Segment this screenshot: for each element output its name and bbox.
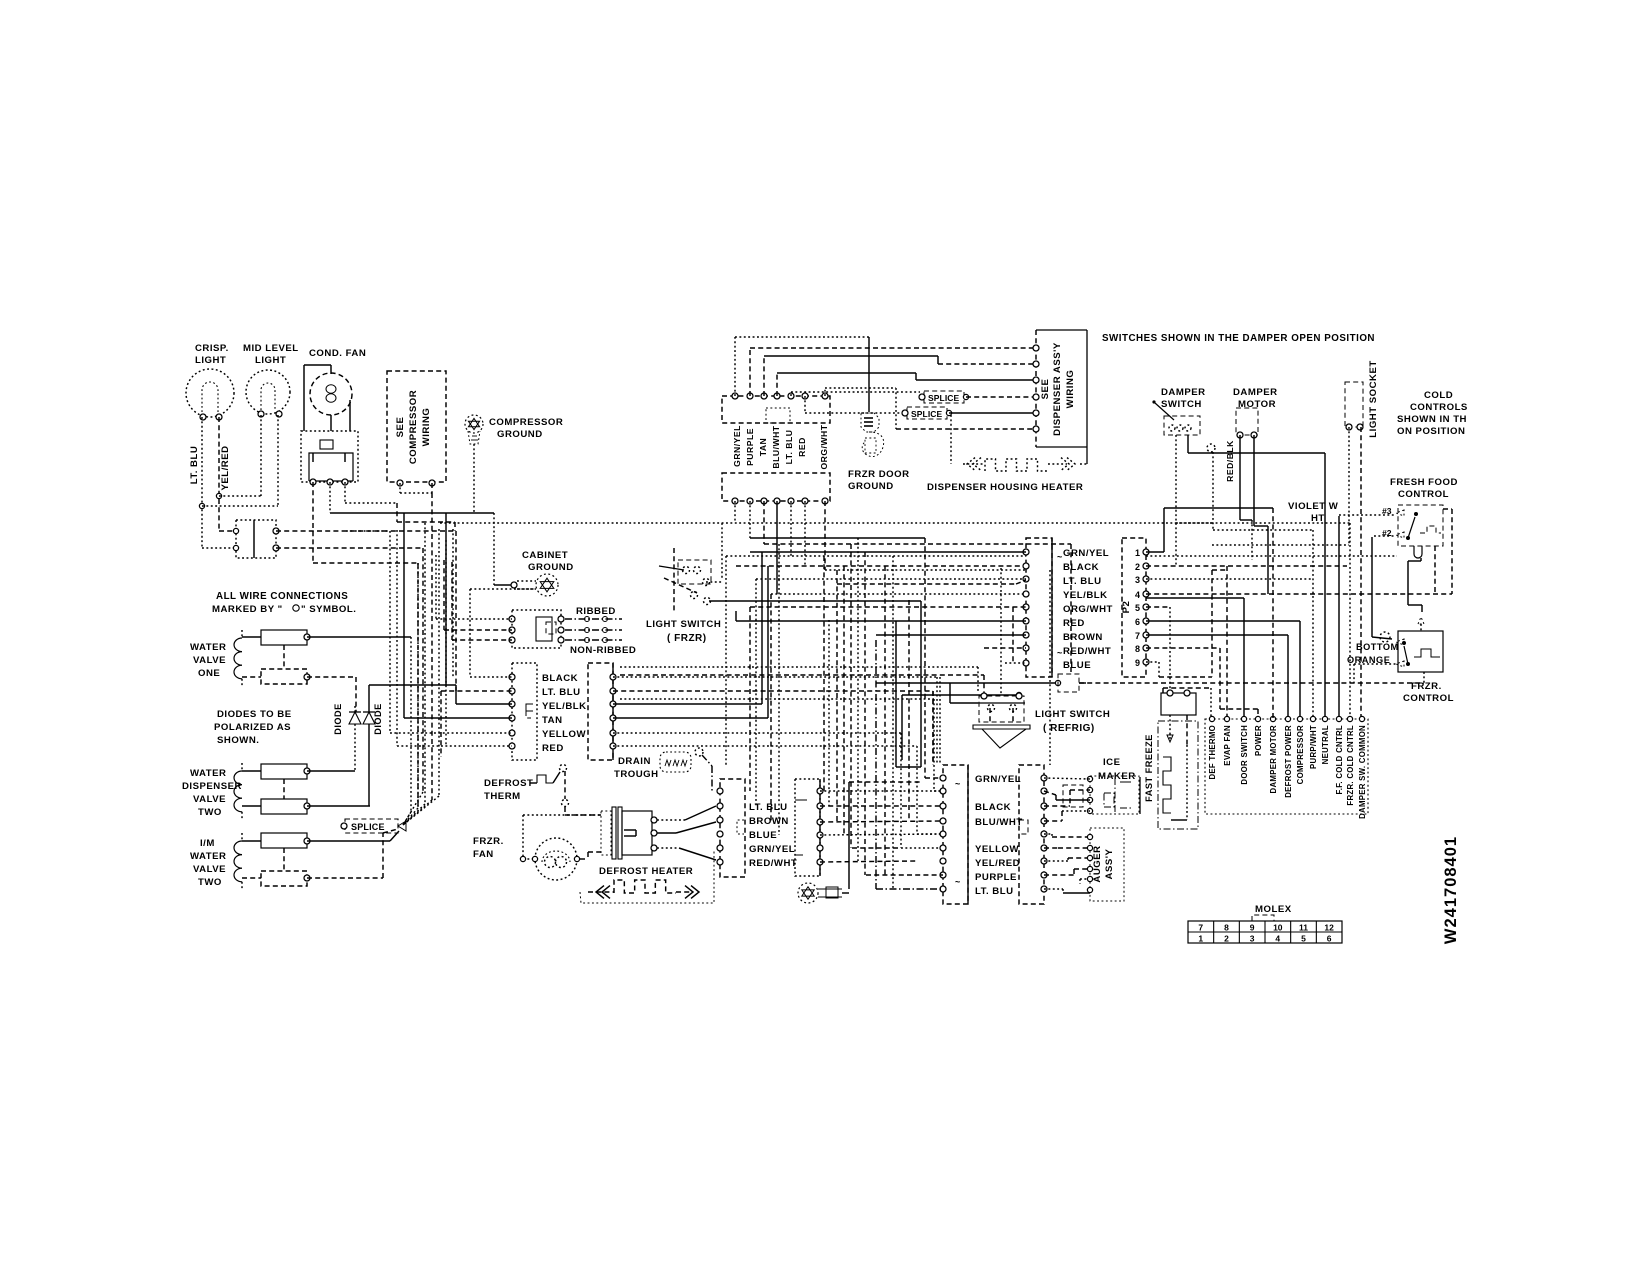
wire switch frzr out2 bbox=[735, 611, 737, 621]
wire mesh v902 bbox=[901, 695, 903, 760]
wire purp wht drop bbox=[1312, 530, 1314, 719]
wire row tan right bbox=[613, 717, 768, 719]
wire blue row bbox=[1005, 662, 1026, 664]
svg-text:RED/BLK: RED/BLK bbox=[1225, 440, 1235, 482]
wire bus y556 bbox=[726, 555, 1026, 557]
svg-text:LIGHT: LIGHT bbox=[255, 355, 286, 366]
wire evap fan drop bbox=[1226, 566, 1228, 719]
wire def thermo link bbox=[1163, 687, 1211, 689]
board terminal EVAP FAN bbox=[1224, 716, 1229, 721]
wire mesh h675 bbox=[620, 674, 984, 676]
wire switch frzr out1 bbox=[709, 600, 921, 602]
wire row ltblu left bbox=[441, 690, 512, 692]
wire valve2 top out bbox=[307, 770, 355, 772]
svg-text:RED: RED bbox=[542, 743, 564, 754]
defrost connector A bbox=[720, 779, 745, 877]
svg-text:RED: RED bbox=[797, 437, 807, 457]
icemaker connector D bbox=[1019, 765, 1044, 904]
splice converge diagonals bbox=[403, 812, 411, 825]
svg-text:( FRZR): ( FRZR) bbox=[667, 633, 707, 644]
svg-text:ORG/WHT: ORG/WHT bbox=[1063, 604, 1113, 615]
board terminal PURP/WHT bbox=[1310, 716, 1315, 721]
wire mid light left lead bbox=[260, 415, 262, 496]
svg-text:DRAIN: DRAIN bbox=[618, 756, 651, 767]
wire row black right bbox=[613, 676, 937, 678]
svg-text:DAMPER: DAMPER bbox=[1233, 387, 1278, 398]
svg-text:DAMPER MOTOR: DAMPER MOTOR bbox=[1269, 725, 1278, 793]
wire bus y513 bbox=[330, 512, 494, 514]
board terminal POWER bbox=[1255, 716, 1260, 721]
svg-text:5: 5 bbox=[1301, 934, 1306, 944]
svg-text:BLACK: BLACK bbox=[975, 802, 1011, 813]
svg-text:1: 1 bbox=[1198, 934, 1203, 944]
wire row red right bbox=[613, 745, 917, 747]
svg-text:MOLEX: MOLEX bbox=[1255, 904, 1292, 915]
ice maker box bbox=[1090, 776, 1139, 814]
wire ltblu row bbox=[756, 578, 1026, 580]
svg-text:BLUE: BLUE bbox=[749, 830, 777, 841]
svg-text:YEL/RED: YEL/RED bbox=[220, 445, 231, 490]
water valve one coil bbox=[241, 630, 243, 638]
wire comp box t1 drop bbox=[399, 483, 401, 493]
wire diode2 top run bbox=[369, 684, 456, 686]
see compressor wiring box bbox=[387, 371, 446, 482]
wire bus y566 bbox=[736, 565, 1026, 567]
svg-text:6: 6 bbox=[1327, 934, 1332, 944]
bundle vertical e bbox=[417, 563, 419, 808]
wire mesh h667 bbox=[620, 666, 978, 668]
wire grnyel row solid bbox=[750, 551, 1026, 553]
compressor relay box bbox=[301, 431, 358, 482]
wire p2 route bbox=[1146, 565, 1347, 567]
svg-text:PURPLE: PURPLE bbox=[745, 428, 755, 466]
svg-text:YEL/BLK: YEL/BLK bbox=[1063, 590, 1108, 601]
svg-text:~: ~ bbox=[1057, 648, 1063, 658]
wire p6 route bbox=[1146, 620, 1300, 622]
wire row yellow right bbox=[613, 732, 901, 734]
wire bus y503-522 bbox=[345, 502, 397, 504]
svg-text:VALVE: VALVE bbox=[193, 864, 226, 875]
im water valve coil bbox=[241, 833, 243, 841]
svg-text:MARKED BY ": MARKED BY " bbox=[212, 604, 283, 615]
wire lamp connector out 2 bbox=[276, 547, 423, 549]
svg-text:WATER: WATER bbox=[190, 642, 226, 653]
svg-text:YELLOW: YELLOW bbox=[975, 844, 1019, 855]
power cord plug bbox=[512, 610, 561, 648]
svg-text:~: ~ bbox=[1057, 552, 1063, 562]
fast freeze outline bbox=[1158, 721, 1198, 829]
wire disp 7 up bbox=[824, 388, 826, 396]
wire mesh h683 bbox=[876, 682, 1058, 684]
wire bus y544 bbox=[764, 543, 1071, 545]
board terminal COMPRESSOR bbox=[1297, 716, 1302, 721]
svg-text:POLARIZED AS: POLARIZED AS bbox=[214, 722, 291, 733]
water dispenser valve two body bbox=[261, 764, 307, 779]
svg-text:THERM: THERM bbox=[484, 791, 521, 802]
svg-text:1: 1 bbox=[1135, 548, 1140, 558]
svg-text:WATER: WATER bbox=[190, 851, 226, 862]
wire p1 route bbox=[1146, 551, 1164, 553]
fast freeze relay box bbox=[1161, 693, 1196, 715]
wire disp lower drops bbox=[734, 501, 736, 523]
svg-text:COMPRESSOR: COMPRESSOR bbox=[408, 390, 419, 464]
svg-text:LIGHT SWITCH: LIGHT SWITCH bbox=[1035, 709, 1110, 720]
wire splice2 drop bbox=[950, 415, 952, 464]
svg-text:DEFROST POWER: DEFROST POWER bbox=[1284, 725, 1293, 798]
svg-text:GRN/YEL: GRN/YEL bbox=[732, 425, 742, 467]
frzr door ground lug bbox=[861, 413, 879, 432]
wire frzr cold drop bbox=[1349, 523, 1351, 719]
svg-text:7: 7 bbox=[1198, 923, 1203, 933]
wire light socket t1 violet bbox=[1348, 427, 1350, 545]
svg-text:DEFROST HEATER: DEFROST HEATER bbox=[599, 866, 693, 877]
svg-text:BROWN: BROWN bbox=[749, 816, 789, 827]
svg-text:8: 8 bbox=[1135, 644, 1140, 654]
svg-text:RED/WHT: RED/WHT bbox=[1063, 646, 1111, 657]
svg-text:DISPENSER: DISPENSER bbox=[182, 781, 242, 792]
svg-text:BOTTOM: BOTTOM bbox=[1356, 642, 1399, 652]
wire p9 route bbox=[1146, 661, 1159, 663]
bundle vertical g bbox=[431, 493, 433, 800]
wire damper common bbox=[1176, 522, 1350, 524]
cord ribbed wires bbox=[565, 618, 622, 620]
light socket box bbox=[1345, 382, 1363, 427]
wire p3 route bbox=[1146, 578, 1313, 580]
wire p4 solid route bbox=[1146, 597, 1244, 599]
wire relay t3 drop bbox=[344, 482, 346, 503]
svg-text:5: 5 bbox=[1135, 603, 1140, 613]
wire heater to box bbox=[1080, 463, 1087, 465]
svg-text:DIODE: DIODE bbox=[373, 703, 383, 735]
frzr control box bbox=[1398, 631, 1443, 672]
svg-text:PURPLE: PURPLE bbox=[975, 872, 1017, 883]
wire disp lower drop 5 bbox=[790, 501, 792, 556]
see dispenser assy wiring box bbox=[1035, 330, 1037, 447]
lamp connector block bbox=[236, 520, 276, 558]
wire brown row bbox=[876, 634, 1026, 636]
svg-text:EVAP FAN: EVAP FAN bbox=[1223, 725, 1232, 766]
molex bracket bbox=[1252, 915, 1274, 921]
wire comp box t2 drop bbox=[431, 483, 433, 493]
svg-text:VALVE: VALVE bbox=[193, 794, 226, 805]
bundle vertical d bbox=[410, 637, 412, 812]
wire valve3 top out bbox=[307, 840, 390, 842]
wire lamp connector out 1 bbox=[276, 530, 456, 532]
splice sp1 bbox=[924, 391, 964, 403]
board terminal FRZR. COLD CNTRL bbox=[1347, 716, 1352, 721]
svg-text:2: 2 bbox=[1135, 562, 1140, 572]
svg-text:DEF THERMO: DEF THERMO bbox=[1208, 725, 1217, 780]
svg-text:CRISP.: CRISP. bbox=[195, 343, 229, 354]
svg-text:BROWN: BROWN bbox=[1063, 632, 1103, 643]
P2 connector bbox=[1122, 538, 1146, 677]
light switch refrig symbol bbox=[979, 696, 1024, 722]
svg-text:DISPENSER ASS'Y: DISPENSER ASS'Y bbox=[1052, 342, 1063, 436]
wire disp 3 up bbox=[763, 356, 765, 396]
wire row red left bbox=[397, 745, 512, 747]
wire relay t1 drop bbox=[312, 482, 314, 563]
svg-text:ORG/WHT: ORG/WHT bbox=[819, 424, 829, 469]
svg-text:ASS'Y: ASS'Y bbox=[1104, 848, 1115, 879]
svg-text:SWITCHES SHOWN IN THE DAMP: SWITCHES SHOWN IN THE DAMPER OPEN POSITI… bbox=[1102, 333, 1375, 344]
ff cold cntrl drop bbox=[1338, 516, 1340, 719]
wire crisp light right lead bbox=[218, 417, 220, 531]
svg-text:SPLICE: SPLICE bbox=[911, 409, 943, 419]
svg-text:SWITCH: SWITCH bbox=[1161, 399, 1202, 410]
svg-text:( REFRIG): ( REFRIG) bbox=[1043, 723, 1095, 734]
svg-text:ON POSITION: ON POSITION bbox=[1397, 426, 1465, 437]
evap ground lug bbox=[798, 883, 818, 903]
wire frzr ctl t1 bbox=[1380, 632, 1390, 642]
wire damper sw t1 bbox=[1175, 435, 1177, 566]
wire mesh h699 bbox=[620, 698, 934, 700]
wire p1 dotted bbox=[1146, 555, 1397, 557]
svg-text:RED/WHT: RED/WHT bbox=[749, 858, 797, 869]
wire disp lower drop 7 bbox=[824, 501, 826, 570]
freezer harness connector left bbox=[512, 663, 537, 760]
svg-text:ICE: ICE bbox=[1103, 757, 1121, 768]
wire valve3 bottom out bbox=[307, 877, 383, 879]
wire ff control bottom bbox=[1414, 546, 1422, 558]
wire bus y523 long bbox=[440, 522, 1213, 524]
svg-text:10: 10 bbox=[1273, 923, 1283, 933]
wire frzr ctl bottom bbox=[1423, 672, 1425, 683]
svg-text:7: 7 bbox=[1135, 631, 1140, 641]
svg-text:DAMPER SW. COMMON: DAMPER SW. COMMON bbox=[1358, 725, 1367, 819]
svg-text:LT. BLU: LT. BLU bbox=[975, 886, 1014, 897]
dispenser housing heater bbox=[967, 458, 975, 471]
svg-text:GROUND: GROUND bbox=[528, 562, 574, 573]
wire valve2 bottom out bbox=[307, 805, 370, 807]
bundle vertical c bbox=[403, 513, 405, 718]
wire disp 4 up bbox=[776, 373, 778, 396]
wire disp 5 up splice bbox=[790, 392, 792, 396]
svg-text:RED: RED bbox=[1063, 618, 1085, 629]
damper switch symbol bbox=[1164, 416, 1200, 435]
wire cond fan to relay bbox=[303, 365, 305, 431]
svg-text:LIGHT SOCKET: LIGHT SOCKET bbox=[1368, 360, 1379, 437]
dispenser door connector lower bbox=[722, 473, 830, 501]
wire damper motor mesh bbox=[1251, 520, 1253, 560]
svg-text:F.F. COLD CNTRL: F.F. COLD CNTRL bbox=[1335, 725, 1344, 794]
wire row yelblk right bbox=[613, 703, 762, 705]
svg-text:GROUND: GROUND bbox=[497, 429, 543, 440]
svg-text:4: 4 bbox=[1135, 590, 1140, 600]
splice oval bbox=[345, 819, 398, 833]
wire frzr ctl t2 bbox=[1354, 663, 1396, 665]
wire relay t2 drop bbox=[329, 482, 331, 513]
wire disp lower drop 6 bbox=[804, 501, 806, 566]
svg-text:COND. FAN: COND. FAN bbox=[309, 348, 366, 359]
svg-text:DEFROST: DEFROST bbox=[484, 778, 533, 789]
svg-text:TROUGH: TROUGH bbox=[614, 769, 659, 780]
A arrow marker bbox=[1418, 617, 1424, 624]
svg-text:LIGHT: LIGHT bbox=[195, 355, 226, 366]
cabinet harness connector bbox=[1026, 538, 1052, 677]
svg-text:I/M: I/M bbox=[200, 838, 215, 849]
svg-text:NON-RIBBED: NON-RIBBED bbox=[570, 645, 636, 656]
svg-text:AUGER: AUGER bbox=[1092, 845, 1103, 882]
bundle vertical b bbox=[396, 530, 398, 746]
svg-text:12: 12 bbox=[1324, 923, 1334, 933]
svg-text:TAN: TAN bbox=[542, 715, 563, 726]
svg-text:HT: HT bbox=[1311, 513, 1325, 524]
fast freeze switch bbox=[1169, 715, 1171, 740]
svg-text:NEUTRAL: NEUTRAL bbox=[1321, 725, 1330, 764]
svg-text:GRN/YEL: GRN/YEL bbox=[749, 844, 795, 855]
svg-text:LT. BLU: LT. BLU bbox=[189, 446, 200, 485]
svg-text:" SYMBOL.: " SYMBOL. bbox=[301, 604, 356, 615]
fresh food control box bbox=[1398, 505, 1443, 546]
wire evap ground up bbox=[842, 892, 849, 894]
svg-text:FAST FREEZE: FAST FREEZE bbox=[1144, 734, 1154, 802]
wire row yelblk left bbox=[456, 703, 512, 705]
svg-text:YEL/BLK: YEL/BLK bbox=[542, 701, 587, 712]
auger assy box bbox=[1090, 828, 1124, 901]
svg-text:BLU/WHT: BLU/WHT bbox=[975, 817, 1023, 828]
bracket yelblk-tan bbox=[526, 704, 533, 711]
svg-text:COMPRESSOR: COMPRESSOR bbox=[489, 417, 563, 428]
svg-text:BLUE: BLUE bbox=[1063, 660, 1091, 671]
molex table bbox=[1188, 921, 1342, 943]
svg-text:TWO: TWO bbox=[198, 807, 222, 818]
dispenser door connector upper bbox=[722, 396, 830, 423]
svg-text:SHOWN IN TH: SHOWN IN TH bbox=[1397, 414, 1467, 425]
svg-text:YEL/RED: YEL/RED bbox=[975, 858, 1020, 869]
svg-text:SEE: SEE bbox=[1040, 379, 1051, 400]
frzr door ground stem bbox=[868, 337, 870, 412]
board terminal DEFROST POWER bbox=[1285, 716, 1290, 721]
icemaker connector C bbox=[943, 765, 968, 904]
svg-text:W241708401: W241708401 bbox=[1442, 836, 1460, 944]
svg-text:LT. BLU: LT. BLU bbox=[749, 802, 788, 813]
wire ltblu row b bbox=[837, 583, 1016, 585]
water dispenser valve two coil bbox=[241, 763, 243, 771]
wire compressor ground drop bbox=[473, 444, 475, 513]
wire bus y570 bbox=[825, 569, 1026, 571]
wire redwht row bbox=[984, 647, 1026, 649]
wire disp 2 up bbox=[749, 348, 751, 396]
svg-text:FAN: FAN bbox=[473, 849, 494, 860]
wires to ice maker bbox=[1044, 778, 1090, 779]
svg-text:9: 9 bbox=[1135, 658, 1140, 668]
bundle vertical f bbox=[424, 523, 426, 804]
wire yelblk row bbox=[771, 593, 1026, 595]
wire bus y563 bbox=[313, 562, 418, 564]
svg-text:~: ~ bbox=[955, 877, 961, 887]
wire disp grnyel up bbox=[734, 337, 736, 396]
svg-text:FRZR DOOR: FRZR DOOR bbox=[848, 469, 910, 480]
wire disp 6 up splice bbox=[804, 396, 806, 413]
svg-text:BLU/WHT: BLU/WHT bbox=[771, 425, 781, 468]
svg-text:DIODES TO BE: DIODES TO BE bbox=[217, 709, 292, 720]
svg-text:WIRING: WIRING bbox=[1065, 370, 1076, 409]
drain trough symbol bbox=[660, 752, 691, 772]
svg-text:P2: P2 bbox=[1121, 601, 1132, 614]
board terminal DAMPER MOTOR bbox=[1270, 716, 1275, 721]
wires B to C rows bbox=[820, 790, 943, 792]
svg-text:11: 11 bbox=[1299, 923, 1308, 933]
main control board bbox=[1205, 719, 1368, 814]
bundle vertical i bbox=[445, 540, 447, 746]
svg-text:4: 4 bbox=[1275, 934, 1280, 944]
svg-text:COLD: COLD bbox=[1424, 390, 1453, 401]
svg-text:3: 3 bbox=[1135, 575, 1140, 585]
svg-text:YELLOW: YELLOW bbox=[542, 729, 586, 740]
board terminal F.F. COLD CNTRL bbox=[1336, 716, 1341, 721]
wire damper motor col drop bbox=[1272, 508, 1274, 719]
svg-text:FRZR. COLD CNTRL: FRZR. COLD CNTRL bbox=[1346, 725, 1355, 806]
wire mid light right lead bbox=[277, 415, 279, 506]
svg-text:GROUND: GROUND bbox=[848, 481, 894, 492]
bundle vertical a bbox=[389, 531, 391, 733]
svg-text:CONTROL: CONTROL bbox=[1398, 489, 1449, 500]
defrost heater enclosure bbox=[580, 849, 714, 903]
light switch frzr symbol bbox=[673, 548, 675, 612]
svg-text:LT. BLU: LT. BLU bbox=[1063, 576, 1102, 587]
svg-text:FRZR.: FRZR. bbox=[473, 836, 504, 847]
svg-text:6: 6 bbox=[1135, 617, 1140, 627]
wire cabinet ground feed bbox=[493, 513, 495, 585]
wire row tan left bbox=[404, 717, 512, 719]
defrost connector B bbox=[795, 779, 820, 876]
wire light socket t2 bbox=[1360, 427, 1362, 719]
svg-text:BLACK: BLACK bbox=[1063, 562, 1099, 573]
svg-text:SHOWN.: SHOWN. bbox=[217, 735, 259, 746]
freezer harness connector right bbox=[588, 663, 613, 760]
splice sp2 bbox=[907, 407, 947, 419]
svg-text:DIODE: DIODE bbox=[333, 703, 343, 735]
wire damper sw t2 bbox=[1187, 435, 1189, 453]
svg-text:TWO: TWO bbox=[198, 877, 222, 888]
svg-text:RIBBED: RIBBED bbox=[576, 606, 616, 617]
svg-text:WIRING: WIRING bbox=[421, 408, 432, 447]
wire disp lower drop 3 bbox=[763, 501, 765, 544]
svg-text:LIGHT SWITCH: LIGHT SWITCH bbox=[646, 619, 721, 630]
svg-text:SEE: SEE bbox=[395, 417, 406, 438]
defrost heater plug bbox=[601, 811, 611, 855]
wire plug feeds bbox=[436, 618, 512, 620]
svg-text:3: 3 bbox=[1250, 934, 1255, 944]
im water valve body bbox=[261, 833, 307, 848]
wire p8 route bbox=[1146, 647, 1220, 649]
wire p5 route bbox=[1146, 606, 1170, 608]
svg-text:ALL WIRE CONNECTIONS: ALL WIRE CONNECTIONS bbox=[216, 591, 348, 602]
bundle vertical h bbox=[438, 529, 440, 796]
wire ff t3 bbox=[1339, 514, 1396, 516]
defrost therm symbol bbox=[530, 782, 537, 784]
svg-text:CABINET: CABINET bbox=[522, 550, 568, 561]
wire bus y531 bbox=[346, 530, 390, 532]
svg-text:9: 9 bbox=[1250, 923, 1255, 933]
svg-text:COMPRESSOR: COMPRESSOR bbox=[1296, 725, 1305, 784]
wire valve1 bottom out bbox=[307, 676, 356, 678]
defrost heater element bbox=[596, 886, 604, 899]
svg-text:SPLICE: SPLICE bbox=[928, 393, 960, 403]
bundle vertical k bbox=[422, 548, 424, 792]
svg-text:2: 2 bbox=[1224, 934, 1229, 944]
wire ff2 to frzr bbox=[1371, 537, 1373, 637]
svg-text:GRN/YEL: GRN/YEL bbox=[1063, 548, 1109, 559]
wire orgwht row bbox=[750, 606, 1026, 608]
wire row black left bbox=[470, 588, 536, 590]
wire mesh h695 bbox=[949, 683, 951, 703]
water valve one body bbox=[261, 630, 307, 645]
wires to auger bbox=[1044, 833, 1052, 835]
frzr fan symbol bbox=[523, 814, 600, 816]
svg-text:FRESH FOOD: FRESH FOOD bbox=[1390, 477, 1458, 488]
svg-text:TAN: TAN bbox=[758, 438, 768, 457]
